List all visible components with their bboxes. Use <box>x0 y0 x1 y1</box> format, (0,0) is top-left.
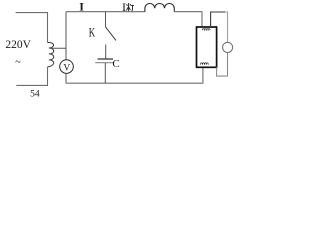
capacitor C lower stem <box>104 63 106 83</box>
svg-text:220V: 220V <box>5 39 31 51</box>
svg-text:I: I <box>122 0 126 14</box>
wire top rail <box>66 11 145 13</box>
svg-text:V: V <box>63 63 70 73</box>
svg-text:I: I <box>79 0 84 13</box>
wire top rail right segment <box>174 12 202 27</box>
wire tube bottom-right pin to starter bottom <box>217 53 228 77</box>
capacitor C top plate <box>98 58 114 60</box>
switch K lower lead <box>105 45 107 59</box>
voltmeter U1 <box>60 60 74 74</box>
tube top filament <box>202 29 210 30</box>
wire tap from coil to voltmeter branch <box>50 47 66 49</box>
autotransformer coil T1 <box>48 42 54 66</box>
wire starter top corner <box>225 12 228 42</box>
svg-text:~: ~ <box>15 57 21 68</box>
fluorescent tube body <box>197 27 217 67</box>
wire tube top-right pin to starter top <box>211 12 225 27</box>
wire top-left source lead <box>16 13 48 43</box>
switch K blade <box>105 27 116 41</box>
svg-text:54: 54 <box>30 90 40 100</box>
wire coil bottom lead <box>16 67 47 86</box>
wire voltmeter bottom stem <box>65 73 67 83</box>
ballast inductor L <box>145 3 174 11</box>
svg-text:C: C <box>112 58 119 70</box>
glyph 灯 drawn <box>126 3 134 11</box>
wire bottom rail <box>66 67 203 83</box>
svg-text:K: K <box>89 25 95 39</box>
starter S <box>223 42 233 52</box>
capacitor C bottom plate <box>95 62 114 64</box>
tube bottom filament <box>201 63 209 65</box>
switch K upper lead <box>105 12 107 27</box>
wire voltmeter branch vertical <box>65 12 67 60</box>
